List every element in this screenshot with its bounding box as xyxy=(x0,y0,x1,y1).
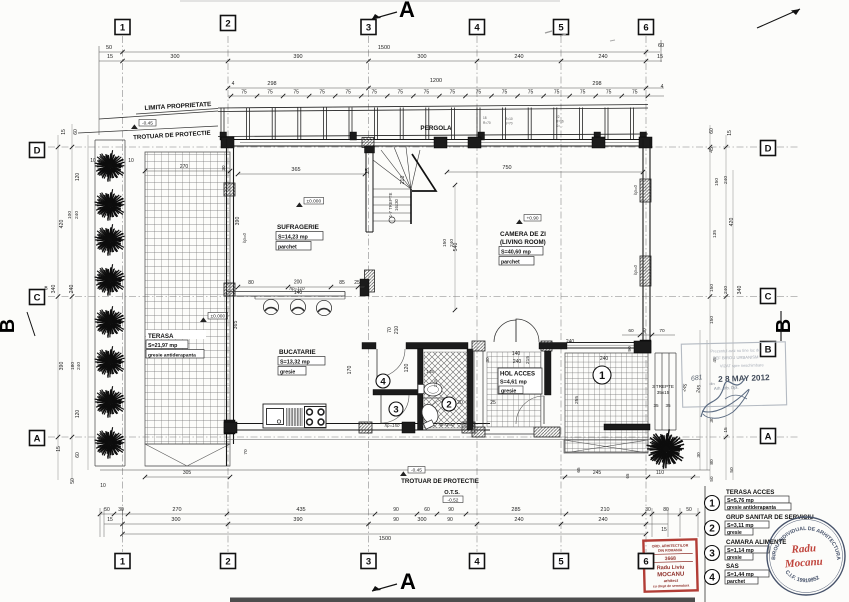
red rectangular stamp xyxy=(643,539,697,591)
svg-text:D: D xyxy=(34,145,41,156)
svg-text:15: 15 xyxy=(107,517,113,523)
room 2 circle xyxy=(442,397,456,411)
svg-text:100: 100 xyxy=(67,211,73,219)
svg-text:4: 4 xyxy=(474,22,480,33)
svg-text:240: 240 xyxy=(449,239,455,247)
svg-text:25: 25 xyxy=(365,168,371,174)
kitchen stove xyxy=(305,407,327,428)
svg-text:4: 4 xyxy=(474,556,480,567)
svg-text:SEF BIROU URBANISM: SEF BIROU URBANISM xyxy=(713,354,759,360)
svg-text:hp=0: hp=0 xyxy=(633,184,638,194)
svg-text:45: 45 xyxy=(709,147,715,153)
top wall piers xyxy=(221,137,234,148)
svg-text:S=13,32 mp: S=13,32 mp xyxy=(280,360,311,366)
top exterior wall xyxy=(226,139,652,141)
pergola structure xyxy=(218,105,648,137)
svg-text:145: 145 xyxy=(426,369,434,374)
svg-text:2: 2 xyxy=(709,524,715,535)
limita proprietate line xyxy=(99,111,218,119)
terasa acces ramp xyxy=(564,440,648,453)
svg-text:75: 75 xyxy=(450,90,456,96)
terasa acces piers xyxy=(634,341,651,353)
svg-text:3 TREPTE: 3 TREPTE xyxy=(652,384,674,389)
svg-text:S=4,61 mp: S=4,61 mp xyxy=(500,380,528,386)
svg-text:16x30: 16x30 xyxy=(394,198,399,211)
svg-text:A: A xyxy=(34,433,41,444)
svg-text:75: 75 xyxy=(241,90,247,96)
svg-text:gresie: gresie xyxy=(727,530,742,536)
svg-text:255: 255 xyxy=(574,396,580,404)
svg-text:15: 15 xyxy=(657,54,663,60)
left wall piers xyxy=(224,183,235,196)
svg-text:1500: 1500 xyxy=(378,45,390,51)
hol bottom door arc xyxy=(543,396,545,424)
sas top wall xyxy=(362,343,376,350)
smudge marks top xyxy=(545,31,552,33)
svg-text:3: 3 xyxy=(709,549,715,560)
svg-text:-0.52: -0.52 xyxy=(448,498,459,504)
svg-text:gresie antiderapanta: gresie antiderapanta xyxy=(148,353,196,359)
svg-text:18: 18 xyxy=(483,116,487,120)
svg-text:30: 30 xyxy=(645,507,651,513)
camera elevation xyxy=(516,219,523,224)
svg-text:150: 150 xyxy=(709,316,715,324)
svg-text:hp=0: hp=0 xyxy=(633,264,638,274)
svg-text:50: 50 xyxy=(104,507,110,513)
svg-text:15: 15 xyxy=(661,527,667,533)
svg-text:O.T.S.: O.T.S. xyxy=(444,490,460,496)
svg-text:240: 240 xyxy=(74,211,80,219)
svg-text:75: 75 xyxy=(554,90,560,96)
svg-text:70: 70 xyxy=(659,328,665,334)
svg-text:3: 3 xyxy=(393,404,398,415)
bath wc xyxy=(419,402,441,426)
room 4 circle xyxy=(376,374,390,388)
svg-text:R=70: R=70 xyxy=(483,121,491,125)
svg-text:180: 180 xyxy=(70,362,76,370)
svg-text:390: 390 xyxy=(59,362,65,371)
svg-text:parchet: parchet xyxy=(727,579,745,585)
svg-text:B: B xyxy=(0,319,19,333)
svg-text:parchet: parchet xyxy=(501,260,520,266)
svg-text:215: 215 xyxy=(433,379,438,387)
svg-text:75: 75 xyxy=(267,90,273,96)
room 1 circle xyxy=(593,366,611,384)
svg-text:435: 435 xyxy=(296,507,305,513)
svg-text:35: 35 xyxy=(665,403,671,408)
svg-text:210: 210 xyxy=(400,176,406,185)
svg-text:390: 390 xyxy=(293,517,302,523)
svg-text:CAMERA DE ZI: CAMERA DE ZI xyxy=(500,231,546,238)
svg-text:SAS: SAS xyxy=(726,563,739,570)
svg-text:22: 22 xyxy=(556,115,560,119)
hol acces hatched floor xyxy=(487,352,541,427)
svg-text:75: 75 xyxy=(293,90,299,96)
svg-text:200: 200 xyxy=(294,280,303,286)
svg-text:Radu: Radu xyxy=(790,542,816,556)
svg-text:1500: 1500 xyxy=(379,536,391,542)
svg-text:240: 240 xyxy=(76,362,82,370)
svg-text:SUFRAGERIE: SUFRAGERIE xyxy=(277,224,320,231)
bottom dim row 1 xyxy=(100,513,698,515)
svg-text:R=10: R=10 xyxy=(505,117,513,121)
svg-text:R=16: R=16 xyxy=(556,120,564,124)
right exterior wall xyxy=(642,139,644,353)
terasa top dim line xyxy=(622,334,675,336)
svg-text:TERASA ACCES: TERASA ACCES xyxy=(726,489,774,496)
svg-text:+0.90: +0.90 xyxy=(526,216,538,222)
svg-text:215: 215 xyxy=(525,356,531,364)
svg-text:60: 60 xyxy=(628,328,634,334)
svg-text:240: 240 xyxy=(723,176,729,184)
bar stools xyxy=(263,299,278,314)
trotuar bottom line xyxy=(100,469,710,471)
svg-text:arhitect: arhitect xyxy=(664,578,679,583)
bottom dim row 3 xyxy=(122,533,646,535)
svg-text:75: 75 xyxy=(632,90,638,96)
stairs bold triangle xyxy=(412,154,436,191)
svg-text:1: 1 xyxy=(599,370,605,382)
svg-text:135: 135 xyxy=(712,230,718,238)
svg-text:240: 240 xyxy=(723,286,729,294)
scan artifact bottom xyxy=(230,598,695,602)
svg-text:5: 5 xyxy=(558,22,564,33)
svg-text:50: 50 xyxy=(709,476,714,482)
svg-text:75: 75 xyxy=(476,90,482,96)
hedge strip xyxy=(94,140,96,466)
svg-text:6: 6 xyxy=(643,556,648,567)
svg-text:60: 60 xyxy=(75,452,81,458)
svg-text:VIZAT spre neschimbare: VIZAT spre neschimbare xyxy=(720,362,765,368)
svg-text:75: 75 xyxy=(580,90,586,96)
svg-text:340: 340 xyxy=(737,286,743,295)
svg-text:75: 75 xyxy=(502,90,508,96)
axis boxes bottom xyxy=(115,554,130,569)
svg-text:65: 65 xyxy=(625,473,630,478)
svg-text:1-7 TREPTE: 1-7 TREPTE xyxy=(388,193,393,218)
svg-text:3668: 3668 xyxy=(665,556,676,562)
svg-text:5: 5 xyxy=(558,556,564,567)
svg-text:240: 240 xyxy=(566,339,575,345)
svg-text:15: 15 xyxy=(723,427,729,433)
svg-text:50: 50 xyxy=(106,45,112,51)
svg-text:S=40,60 mp: S=40,60 mp xyxy=(501,250,532,256)
axis 6 box over stamp xyxy=(639,554,654,569)
svg-text:S=70: S=70 xyxy=(505,122,513,126)
svg-text:C: C xyxy=(34,292,41,303)
bath sink xyxy=(418,385,424,394)
trees row xyxy=(95,150,125,182)
stairs left wall xyxy=(365,146,367,232)
svg-text:80: 80 xyxy=(248,280,254,286)
axis boxes top xyxy=(115,20,130,35)
terrace hatched area xyxy=(145,152,230,444)
terrace top dim 270 xyxy=(145,170,230,172)
sas door arc xyxy=(376,349,378,377)
svg-text:150: 150 xyxy=(709,284,715,292)
svg-text:140: 140 xyxy=(512,351,521,357)
bottom dim row 2 xyxy=(104,523,668,525)
svg-text:305: 305 xyxy=(183,470,192,476)
axis grid lines xyxy=(48,36,800,552)
svg-text:S=14,23 mp: S=14,23 mp xyxy=(278,235,309,241)
svg-text:gresie: gresie xyxy=(501,388,516,394)
svg-text:hp=0: hp=0 xyxy=(242,232,247,242)
svg-text:1: 1 xyxy=(120,556,126,567)
signature scribble xyxy=(701,378,745,417)
svg-text:±0.000: ±0.000 xyxy=(210,314,225,320)
svg-text:300: 300 xyxy=(170,54,179,60)
svg-text:90: 90 xyxy=(447,517,453,523)
svg-text:gresie: gresie xyxy=(727,555,742,561)
hol right wall xyxy=(541,341,552,351)
svg-text:1200: 1200 xyxy=(430,78,442,84)
legend separator lines xyxy=(704,486,706,602)
svg-text:30: 30 xyxy=(485,357,491,363)
svg-text:25: 25 xyxy=(354,280,360,286)
svg-text:210: 210 xyxy=(600,507,609,513)
svg-text:60: 60 xyxy=(73,129,79,135)
svg-text:75: 75 xyxy=(319,90,325,96)
bath right wall xyxy=(467,349,473,430)
kitchen sink xyxy=(267,409,284,425)
wall sas camara xyxy=(373,390,418,396)
terrace label xyxy=(146,330,206,339)
svg-text:gresie: gresie xyxy=(280,370,295,376)
svg-text:150: 150 xyxy=(442,239,448,247)
svg-text:90: 90 xyxy=(448,507,454,513)
grup sanitar hatched floor xyxy=(424,352,467,428)
svg-text:-0.45: -0.45 xyxy=(142,121,153,127)
elevation -0.45 top xyxy=(131,124,138,129)
svg-text:120: 120 xyxy=(404,364,410,373)
svg-text:298: 298 xyxy=(267,81,276,87)
window wall above terasa acces xyxy=(567,342,634,344)
kitchen counter xyxy=(263,404,326,428)
svg-text:300: 300 xyxy=(417,517,426,523)
svg-text:75: 75 xyxy=(528,90,534,96)
svg-text:15: 15 xyxy=(727,130,733,136)
svg-text:50: 50 xyxy=(729,467,735,473)
entrance double door xyxy=(494,320,516,342)
hol acces label xyxy=(498,368,542,394)
svg-text:BUCATARIE: BUCATARIE xyxy=(279,349,316,356)
sufragerie elevation xyxy=(296,202,303,207)
trotuar de protectie line top xyxy=(78,126,218,133)
svg-text:10: 10 xyxy=(128,158,134,164)
svg-text:4: 4 xyxy=(709,573,715,584)
terrace elevation xyxy=(200,317,207,322)
svg-text:90: 90 xyxy=(393,507,399,513)
right wall piers xyxy=(640,179,651,202)
svg-text:60: 60 xyxy=(709,128,715,134)
svg-text:390: 390 xyxy=(235,217,241,226)
svg-text:70: 70 xyxy=(387,327,393,333)
camara door arc xyxy=(380,395,382,423)
svg-text:2: 2 xyxy=(225,556,230,567)
svg-text:240: 240 xyxy=(513,359,522,365)
svg-text:240: 240 xyxy=(598,517,607,523)
kitchen drainboard xyxy=(286,408,288,426)
svg-text:10: 10 xyxy=(90,158,96,164)
svg-text:2: 2 xyxy=(225,18,230,29)
svg-text:420: 420 xyxy=(59,220,65,229)
bath door arc xyxy=(423,397,451,399)
terasa acces bottom dims xyxy=(560,476,700,478)
svg-text:S=21,97 mp: S=21,97 mp xyxy=(148,343,178,349)
terrace bottom dim 305 xyxy=(145,476,230,478)
svg-text:90: 90 xyxy=(627,346,633,352)
svg-text:hp=150: hp=150 xyxy=(385,423,400,428)
svg-text:30: 30 xyxy=(642,328,648,334)
svg-text:110: 110 xyxy=(656,470,664,476)
svg-text:120: 120 xyxy=(75,173,81,182)
svg-text:TERASA: TERASA xyxy=(148,333,174,340)
bottom kitchen wall xyxy=(226,423,490,425)
axis boxes right xyxy=(761,141,776,156)
svg-text:±0.000: ±0.000 xyxy=(306,199,321,205)
svg-text:15: 15 xyxy=(107,54,113,60)
pergola dimension rows xyxy=(228,87,664,89)
svg-text:1: 1 xyxy=(709,499,715,510)
svg-text:B: B xyxy=(765,344,772,355)
svg-text:140: 140 xyxy=(294,290,303,296)
hol left pier column xyxy=(472,341,485,351)
top dimension row 1500 xyxy=(99,51,660,53)
svg-text:20: 20 xyxy=(457,400,463,406)
svg-text:245: 245 xyxy=(593,470,602,476)
svg-text:Radu Liviu: Radu Liviu xyxy=(657,565,685,572)
svg-text:A: A xyxy=(399,0,415,22)
bottom hol wall xyxy=(485,433,534,435)
svg-text:50: 50 xyxy=(686,507,692,513)
svg-text:30: 30 xyxy=(118,507,124,513)
svg-text:75: 75 xyxy=(345,90,351,96)
svg-text:150: 150 xyxy=(714,178,720,186)
wall camara bath vertical xyxy=(418,349,424,430)
svg-text:C: C xyxy=(765,291,772,302)
svg-text:170: 170 xyxy=(347,366,353,375)
svg-text:420: 420 xyxy=(729,218,735,227)
svg-text:50: 50 xyxy=(70,478,76,484)
svg-text:340: 340 xyxy=(51,285,57,294)
hol top wall segment xyxy=(539,343,567,350)
round stamp xyxy=(767,517,845,595)
svg-text:365: 365 xyxy=(233,321,239,330)
svg-text:gresie antiderapanta: gresie antiderapanta xyxy=(727,505,776,511)
scan artifact top xyxy=(180,0,560,2)
svg-text:90: 90 xyxy=(393,517,399,523)
svg-text:240: 240 xyxy=(600,356,609,362)
top dimension row 300/390/300/240/240 xyxy=(99,60,662,62)
terrace ramp bottom xyxy=(145,444,230,466)
svg-text:15: 15 xyxy=(61,129,67,135)
svg-text:4: 4 xyxy=(380,376,386,387)
wall sufragerie bucatarie with bar xyxy=(226,291,345,293)
interior dimension labels xyxy=(238,173,365,175)
left dimension columns xyxy=(57,135,59,480)
tree bottom right xyxy=(647,429,685,469)
svg-text:3: 3 xyxy=(366,556,371,567)
svg-text:75: 75 xyxy=(424,90,430,96)
svg-text:35x15: 35x15 xyxy=(657,390,670,395)
svg-text:298: 298 xyxy=(592,81,601,87)
svg-text:300: 300 xyxy=(417,54,426,60)
visa stamp box xyxy=(681,342,786,407)
svg-text:HOL ACCES: HOL ACCES xyxy=(500,372,535,378)
svg-text:DIN ROMANIA: DIN ROMANIA xyxy=(658,548,683,553)
svg-text:240: 240 xyxy=(69,285,75,294)
svg-text:A: A xyxy=(400,569,416,594)
vertical connectors bottom xyxy=(99,508,101,537)
svg-text:(LIVING ROOM): (LIVING ROOM) xyxy=(500,239,546,246)
svg-text:60: 60 xyxy=(424,507,430,513)
svg-text:240: 240 xyxy=(514,54,523,60)
svg-text:750: 750 xyxy=(502,165,511,171)
svg-text:A: A xyxy=(765,431,772,442)
svg-text:4: 4 xyxy=(232,81,235,87)
svg-text:30: 30 xyxy=(696,452,702,458)
pergola dark posts xyxy=(220,132,227,140)
svg-text:210: 210 xyxy=(394,326,400,335)
room 3 circle xyxy=(389,402,403,416)
steps 3 trepte xyxy=(654,353,656,430)
svg-text:2: 2 xyxy=(446,399,451,410)
svg-text:365: 365 xyxy=(291,167,300,173)
svg-text:1: 1 xyxy=(120,22,126,33)
trotuar edge under house xyxy=(226,439,700,441)
svg-text:15: 15 xyxy=(56,446,62,452)
svg-text:30: 30 xyxy=(221,165,226,171)
svg-text:390: 390 xyxy=(293,54,302,60)
svg-text:75: 75 xyxy=(606,90,612,96)
svg-text:270: 270 xyxy=(180,164,189,170)
right dimension columns xyxy=(699,330,701,470)
svg-text:270: 270 xyxy=(172,507,181,513)
svg-text:75: 75 xyxy=(398,90,404,96)
left exterior wall xyxy=(226,139,228,466)
svg-text:80: 80 xyxy=(709,459,715,465)
staircase xyxy=(373,147,420,224)
axis boxes left xyxy=(30,143,45,158)
svg-text:S=...: S=... xyxy=(556,124,563,128)
svg-text:parchet: parchet xyxy=(278,245,297,251)
svg-text:6: 6 xyxy=(643,22,648,33)
svg-text:240: 240 xyxy=(598,54,607,60)
svg-text:120: 120 xyxy=(75,410,81,419)
terasa acces hatched xyxy=(565,353,648,452)
svg-text:85: 85 xyxy=(339,280,345,286)
svg-text:D: D xyxy=(765,143,772,154)
svg-text:3: 3 xyxy=(366,22,371,33)
svg-text:B: B xyxy=(773,319,795,333)
bottom wall piers xyxy=(224,422,237,433)
svg-text:70: 70 xyxy=(243,449,249,455)
svg-text:300: 300 xyxy=(171,517,180,523)
corner arrow top right xyxy=(757,9,800,28)
svg-text:35: 35 xyxy=(653,403,659,408)
svg-text:240: 240 xyxy=(514,517,523,523)
svg-text:25: 25 xyxy=(490,400,496,406)
svg-text:TROTUAR DE PROTECTIE: TROTUAR DE PROTECTIE xyxy=(401,478,479,485)
svg-text:-0.45: -0.45 xyxy=(411,468,422,474)
svg-text:4: 4 xyxy=(661,84,664,90)
svg-text:285: 285 xyxy=(511,507,520,513)
svg-text:PERGOLA: PERGOLA xyxy=(420,125,452,132)
svg-text:10: 10 xyxy=(100,483,106,489)
svg-text:75: 75 xyxy=(371,90,377,96)
